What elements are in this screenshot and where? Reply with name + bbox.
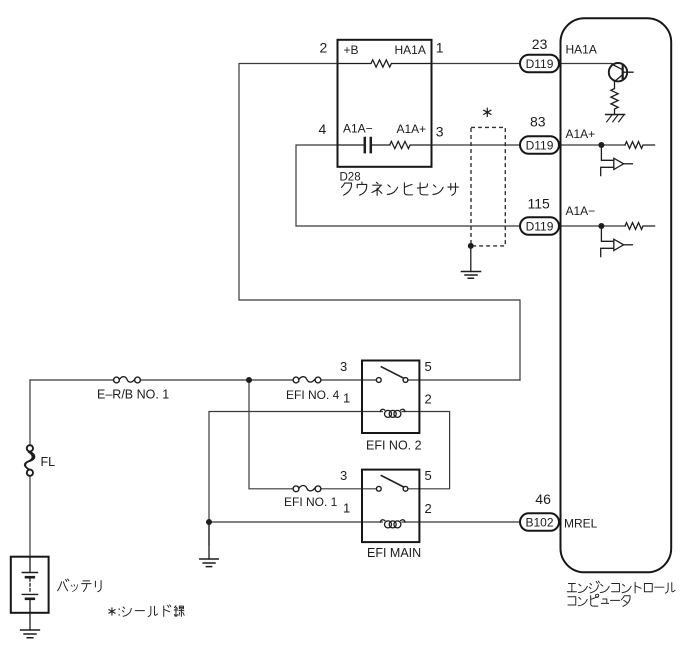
sensor D28 component box — [338, 40, 432, 167]
svg-text:D119: D119 — [526, 138, 554, 152]
junction dot ground rail — [206, 519, 212, 525]
label relay NO.2 pin 2 — [425, 391, 432, 406]
connector oval D119 pin 83 — [520, 136, 559, 154]
svg-text:1: 1 — [343, 500, 350, 515]
label relay NO.2 pin 1 — [343, 391, 350, 406]
wire D119-115 into ECU to resistor and amp node — [559, 225, 626, 227]
svg-text:FL: FL — [41, 455, 56, 469]
svg-text:3: 3 — [436, 123, 444, 139]
battery internal plates — [22, 557, 37, 630]
wire D119-83 into ECU to resistor and amp node — [559, 144, 626, 146]
label A1A+ ecu — [566, 127, 596, 141]
svg-text:∗: ∗ — [481, 104, 494, 121]
wire relay EFI MAIN pin1 to ground rail — [209, 521, 382, 523]
svg-text:115: 115 — [528, 195, 551, 211]
capacitor in sensor — [338, 138, 390, 152]
svg-text:23: 23 — [532, 36, 548, 52]
wire junction A down to EFI NO.1 fuse — [249, 380, 293, 489]
label FL — [41, 455, 56, 469]
shield ground — [462, 272, 481, 279]
ECU エンジンコントロールコンピュータ box — [561, 18, 672, 572]
shield dashed box — [471, 127, 505, 245]
ground rail earth symbol — [200, 522, 218, 567]
svg-text:83: 83 — [530, 114, 546, 130]
label pin 2 sensor — [320, 40, 328, 56]
junction dot amp A1A- — [598, 223, 604, 229]
wire D119-23 into ECU to transistor — [559, 63, 613, 65]
svg-text:3: 3 — [340, 359, 347, 374]
wire battery up through FL to main rail — [29, 380, 31, 445]
label HA1A sensor — [395, 43, 426, 57]
label relay MAIN pin 5 — [425, 468, 432, 483]
label D119 pin115 — [526, 219, 554, 233]
label エンジンコントロール (ECU name line1) — [567, 581, 675, 593]
relay EFI NO.2 coil — [380, 409, 405, 417]
resistor in sensor (element) — [390, 141, 432, 148]
fuse EFI NO.1 — [293, 486, 321, 492]
relay EFI MAIN switch — [376, 476, 408, 492]
wire relay EFI NO.2 pin2 down to relay EFI MAIN pin5 — [402, 412, 450, 489]
wire sensor pin4 A1A- left, down, right to connector D119-115 — [296, 145, 520, 226]
relay EFI MAIN coil — [380, 520, 405, 528]
amplifier at A1A+ — [601, 145, 633, 176]
label シールド線 (shield wire footnote) — [122, 605, 184, 617]
label A1A- sensor — [343, 122, 373, 136]
label EFI NO. 1 — [284, 495, 338, 509]
resistor in sensor (heater) — [338, 60, 432, 67]
battery ground earth symbol — [21, 630, 40, 638]
svg-text:D28: D28 — [340, 171, 361, 183]
label relay NO.2 pin 3 — [340, 359, 347, 374]
label コンピュータ (ECU name line2) — [568, 594, 630, 606]
svg-text:B102: B102 — [525, 515, 553, 529]
junction A dot — [246, 377, 252, 383]
svg-text:∗:: ∗: — [107, 604, 122, 619]
svg-text:D119: D119 — [526, 57, 554, 71]
svg-text:+B: +B — [344, 43, 359, 57]
label pin 3 sensor — [436, 123, 444, 139]
wire relay EFI NO.2 pin5 to +B feed corner — [408, 379, 520, 381]
label クウネンヒセンサ (sensor name) — [342, 182, 459, 195]
label EFI MAIN — [367, 546, 421, 560]
connector oval D119 pin 115 — [520, 217, 559, 235]
battery box — [11, 557, 49, 613]
label 83 — [530, 114, 546, 130]
label relay MAIN pin 1 — [343, 500, 350, 515]
wire FL bottom to battery box — [29, 476, 31, 557]
amplifier at A1A- — [601, 226, 633, 257]
wire sensor pin1 HA1A to connector D119-23 — [432, 63, 521, 65]
wire junction A to EFI NO.4 fuse — [249, 379, 293, 381]
label E-R/B NO. 1 — [97, 388, 169, 402]
svg-text:A1A+: A1A+ — [397, 122, 427, 136]
label pin 1 sensor — [436, 40, 444, 56]
svg-text:3: 3 — [340, 468, 347, 483]
resistor at A1A- in ECU — [625, 223, 655, 230]
label D28 — [340, 171, 361, 183]
label +B — [344, 43, 359, 57]
svg-text:EFI NO. 1: EFI NO. 1 — [284, 495, 338, 509]
label EFI NO. 2 — [366, 439, 422, 453]
label D119 pin23 — [526, 57, 554, 71]
svg-text:HA1A: HA1A — [566, 43, 597, 57]
resistor at A1A+ in ECU — [625, 142, 655, 149]
relay EFI NO.2 box — [362, 361, 419, 434]
label 23 — [532, 36, 548, 52]
svg-text:HA1A: HA1A — [395, 43, 426, 57]
relay EFI MAIN box — [362, 470, 419, 542]
svg-text:D119: D119 — [526, 219, 554, 233]
wire EFI NO.4 fuse to relay EFI NO.2 pin3 — [321, 379, 376, 381]
svg-text:EFI MAIN: EFI MAIN — [367, 546, 421, 560]
transistor U1 in ECU — [609, 63, 633, 82]
wire relay EFI NO.2 pin1 to ground rail — [209, 412, 382, 546]
label B102 — [525, 515, 553, 529]
svg-text:4: 4 — [319, 121, 327, 137]
wire sensor pin3 A1A+ to connector D119-83 — [432, 144, 521, 146]
wire E-R/B fuse to junction A — [141, 379, 250, 381]
svg-text:E–R/B NO. 1: E–R/B NO. 1 — [97, 388, 169, 402]
shield ground stem — [470, 246, 472, 272]
chassis ground under transistor resistor — [606, 115, 625, 122]
junction dot amp A1A+ — [598, 142, 604, 148]
svg-text:A1A−: A1A− — [343, 122, 373, 136]
svg-text:A1A+: A1A+ — [566, 127, 596, 141]
label バッテリ (battery name) — [58, 579, 102, 592]
label 46 — [535, 491, 551, 507]
fusible link FL — [25, 445, 35, 476]
wire +B feed: sensor pin2 left, down, right, down to relay pin5 — [239, 64, 520, 381]
label EFI NO. 4 — [286, 388, 340, 402]
svg-text:2: 2 — [320, 40, 328, 56]
svg-text:A1A−: A1A− — [566, 204, 596, 218]
label relay MAIN pin 3 — [340, 468, 347, 483]
label 115 — [528, 195, 551, 211]
label D119 pin83 — [526, 138, 554, 152]
label MREL — [564, 517, 598, 531]
wire battery to E-R/B fuse — [30, 379, 114, 381]
svg-text:46: 46 — [535, 491, 551, 507]
resistor under transistor — [611, 82, 618, 115]
label pin 4 sensor — [319, 121, 327, 137]
label relay MAIN pin 2 — [425, 501, 432, 516]
label relay NO.2 pin 5 — [425, 359, 432, 374]
label footnote asterisk — [107, 604, 122, 619]
svg-text:MREL: MREL — [564, 517, 598, 531]
svg-text:5: 5 — [425, 359, 432, 374]
fuse EFI NO.4 — [293, 377, 321, 383]
label asterisk shield — [481, 104, 494, 121]
fuse E-R/B NO.1 — [114, 377, 141, 383]
svg-text:EFI NO. 4: EFI NO. 4 — [286, 388, 340, 402]
svg-text:5: 5 — [425, 468, 432, 483]
svg-text:2: 2 — [425, 501, 432, 516]
connector oval B102 pin 46 — [520, 513, 559, 531]
label A1A- ecu — [566, 204, 596, 218]
relay EFI NO.2 switch — [376, 367, 408, 383]
label HA1A ecu — [566, 43, 597, 57]
svg-text:1: 1 — [343, 391, 350, 406]
wire relay EFI MAIN pin2 to connector B102-46 — [402, 521, 520, 523]
svg-text:1: 1 — [436, 40, 444, 56]
wire EFI NO.1 fuse to relay EFI MAIN pin3 — [321, 488, 376, 490]
connector oval D119 pin 23 — [520, 55, 559, 73]
label A1A+ sensor — [397, 122, 427, 136]
svg-text:EFI NO. 2: EFI NO. 2 — [366, 439, 422, 453]
svg-text:2: 2 — [425, 391, 432, 406]
junction dot shield — [468, 243, 474, 249]
